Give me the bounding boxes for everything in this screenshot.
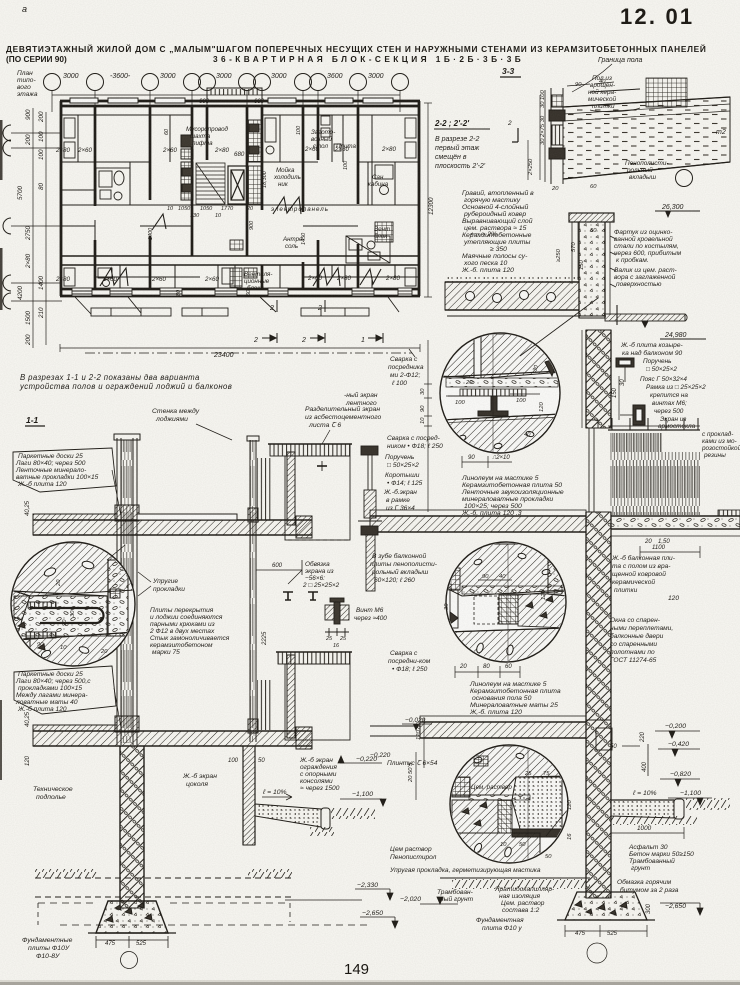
trash chute boxes [181, 135, 193, 200]
handrail post detail middle column [358, 446, 382, 591]
floor layers paragraph under D2 [469, 681, 561, 716]
elevator shaft [228, 166, 247, 204]
dim 1000 [611, 827, 684, 839]
levels left section [38, 756, 398, 928]
roof band left of parapet [445, 276, 579, 282]
axis circle 2 right [676, 170, 693, 187]
floor slab band [563, 89, 730, 179]
left axis half-bubbles [3, 125, 11, 309]
basement wall [120, 746, 144, 908]
-2,020 mark [420, 897, 458, 904]
top wall panel ticks [70, 98, 393, 103]
main wall upper run [582, 330, 611, 428]
left page edge marks [0, 120, 3, 180]
2-2 note [434, 119, 490, 170]
lower balcony screen elevation [276, 652, 352, 740]
kitchen block right of core [248, 120, 261, 204]
3-3 texts [507, 75, 669, 192]
level 26,300 [655, 204, 700, 218]
frame glyph [620, 405, 645, 425]
dim 150 vertical [612, 376, 626, 420]
basement labels [33, 758, 292, 801]
door chevrons [100, 197, 381, 286]
right levels texts [400, 723, 701, 914]
left loggia wall [114, 434, 140, 745]
section 1-1 captions [152, 405, 382, 444]
parapet texts [614, 229, 682, 288]
loggia screens (vertical striping) [257, 458, 272, 520]
elastic pads label [138, 572, 185, 596]
bottom dimension line 23400 [60, 344, 420, 352]
hook connection paragraph [149, 607, 230, 656]
fence labels right [640, 358, 740, 459]
apron at basement screen [255, 804, 375, 836]
main floor slab band at 515 [370, 510, 740, 536]
cut mark 2 [512, 128, 518, 142]
upper balcony screen elevation [268, 444, 352, 540]
wall basement run [586, 720, 612, 898]
basement screen wall [243, 746, 255, 845]
dimension ticks 3-3 [528, 82, 614, 180]
wall mid run [586, 512, 611, 720]
balcony door leaf [586, 420, 598, 512]
lower-left spec block [14, 666, 121, 728]
section cut marks [85, 300, 415, 357]
plan dimension texts [63, 73, 384, 359]
bolt detail small [325, 598, 349, 636]
bathroom upper-left [96, 168, 130, 205]
upper floor slab [33, 514, 312, 538]
outer walls [60, 101, 420, 296]
right side levels [622, 731, 712, 805]
bottom captions [389, 846, 679, 937]
interior partitions [61, 115, 419, 289]
leader from circle to wall [107, 545, 125, 560]
vent blocks [230, 240, 257, 287]
dims inside D2 [478, 579, 512, 581]
asphalt text [628, 844, 694, 872]
ceramic tile crosshatch patch [646, 78, 687, 107]
detail circle (floor joint) [11, 542, 135, 668]
handrail box glyph [616, 358, 634, 382]
interior cross walls [95, 106, 358, 289]
foundation dims [96, 936, 168, 969]
lower floor slab [33, 725, 312, 749]
apron right [611, 798, 730, 825]
D2 captions left [370, 552, 438, 673]
level -2.650 right [660, 903, 703, 915]
dim ticks left of D3 [416, 718, 424, 800]
lower floor slab [370, 716, 586, 738]
section label 1-1 [25, 415, 45, 426]
bathroom lower-right [346, 236, 390, 263]
screen fencing label (middle) [299, 756, 340, 792]
leader to 24,980 [520, 298, 598, 356]
anchor tees [283, 592, 318, 600]
right foundation dims [565, 925, 647, 963]
dim 1100 under balcony slab [640, 546, 700, 558]
plan room labels [55, 125, 400, 344]
balcony screen verticals [608, 418, 700, 515]
D3 captions left [370, 717, 438, 783]
top protruding stair bay [207, 88, 262, 102]
dims around slabs [25, 500, 283, 947]
foundation label [22, 936, 73, 960]
ground lines and foundation band [35, 869, 292, 897]
wall between loggias [247, 436, 259, 742]
floor layers paragraph under D1 [461, 475, 564, 517]
parapet vertical dims [577, 222, 579, 280]
bottom page edge shadow [0, 982, 740, 985]
balcony slab label [611, 554, 679, 602]
stair treads [196, 163, 225, 204]
right dimension line 12300 [424, 103, 432, 297]
extra fixtures [64, 116, 416, 287]
dims inside D1 [448, 394, 540, 396]
parapet detail [445, 213, 687, 327]
obvyazka label [288, 560, 340, 589]
canopy slab right of parapet [605, 314, 685, 321]
upругая прокладка line + ground band [440, 878, 590, 889]
level 24,980 [660, 332, 706, 339]
upper-left spec block [13, 448, 121, 516]
grid stems [52, 90, 400, 112]
grid bubbles top row [44, 74, 409, 91]
window GOST label [610, 617, 673, 664]
left end member [545, 88, 565, 184]
D1 captions left [344, 356, 443, 512]
bolt label [325, 607, 387, 649]
roof composition paragraph [461, 189, 534, 274]
svg-text:149: 149 [344, 961, 369, 978]
foundation pad [88, 901, 176, 933]
dims below D2 [455, 666, 520, 678]
right section left dim chain [424, 340, 432, 512]
dim 90 2x10 below [462, 456, 512, 468]
left dimension chains [33, 108, 46, 348]
600 dimension at loggia [256, 560, 302, 575]
loggia parapet posts [287, 452, 295, 525]
right foundation pad [557, 892, 655, 920]
loggia combs bottom [75, 297, 399, 316]
